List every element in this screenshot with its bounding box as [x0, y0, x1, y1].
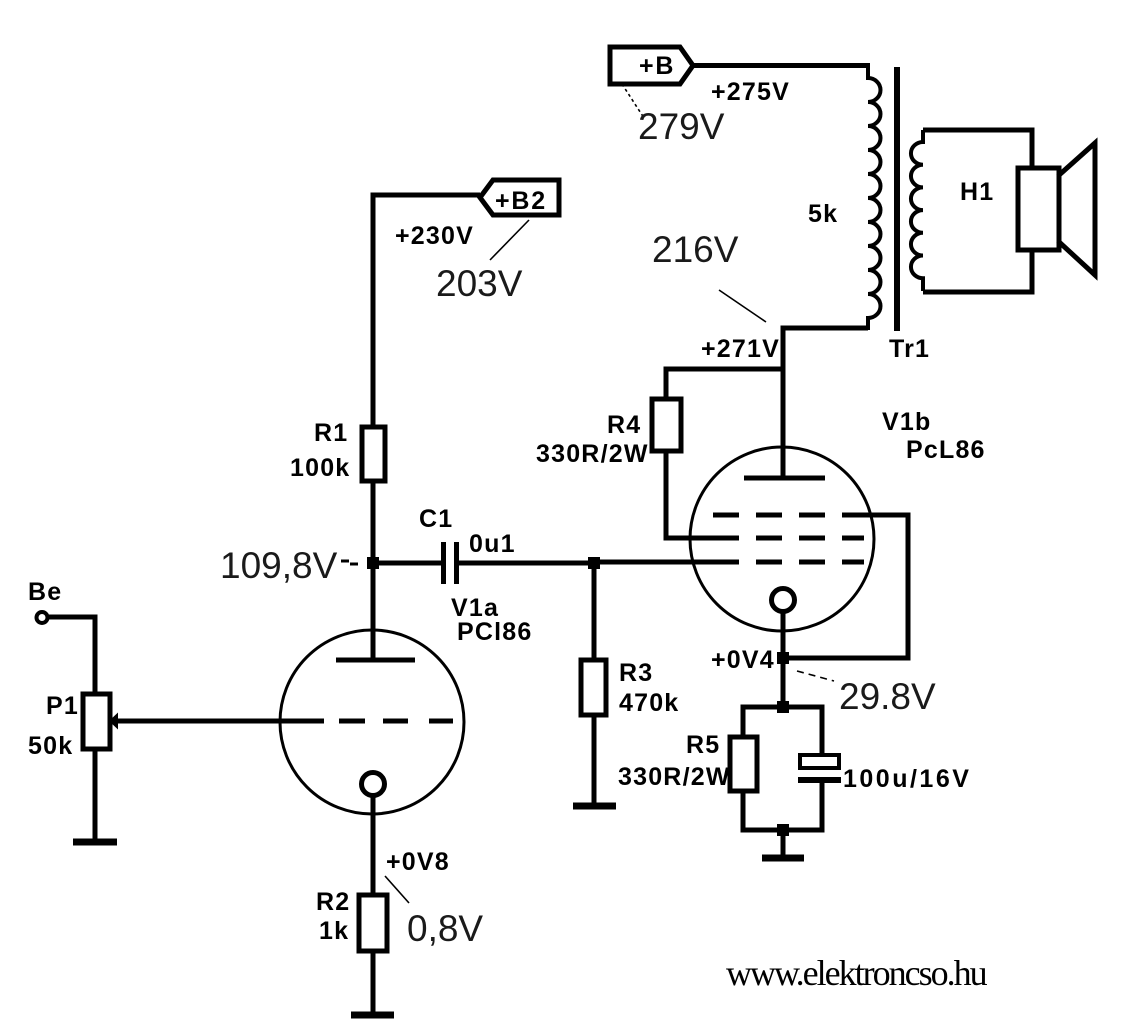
leader line for 203V: [490, 220, 529, 260]
wire P1 to ground: [93, 749, 98, 841]
anode plate V1a: [336, 658, 415, 663]
supply tag +B: [610, 47, 693, 84]
wiper arrow P1: [109, 713, 118, 730]
grid dashes V1a: [339, 719, 453, 724]
anode plate V1b: [744, 476, 825, 481]
svg-text:100k: 100k: [290, 454, 350, 482]
svg-text:R4: R4: [607, 411, 641, 439]
svg-text:+230V: +230V: [395, 222, 474, 250]
svg-text:PCl86: PCl86: [457, 618, 532, 646]
speaker driver: [1018, 168, 1059, 250]
svg-text:330R/2W: 330R/2W: [536, 440, 649, 468]
wire +B to transformer primary top: [693, 63, 868, 68]
tube V1a envelope: [280, 630, 464, 814]
wire anode node to R4: [666, 369, 783, 399]
ground (R3): [573, 803, 616, 810]
svg-text:+0V8: +0V8: [386, 848, 450, 876]
wire g3 to cathode node: [783, 515, 908, 658]
svg-text:+B: +B: [639, 52, 675, 80]
svg-text:R3: R3: [619, 659, 653, 687]
leader line for 216V: [719, 290, 766, 322]
svg-text:PcL86: PcL86: [906, 436, 986, 464]
svg-text:1k: 1k: [319, 917, 349, 945]
resistor R1: [362, 427, 385, 481]
svg-text:www.elektroncso.hu: www.elektroncso.hu: [726, 953, 988, 993]
tilde mark: [341, 561, 358, 564]
wire +B2 to R1: [373, 195, 480, 427]
cathode V1b: [772, 589, 795, 612]
svg-text:C1: C1: [419, 505, 453, 533]
svg-text:203V: 203V: [436, 263, 523, 304]
svg-text:V1b: V1b: [882, 408, 931, 436]
svg-text:Be: Be: [28, 578, 62, 606]
svg-text:0,8V: 0,8V: [407, 908, 483, 949]
wire cathode network bottom: [743, 780, 822, 830]
node network bottom: [777, 824, 789, 836]
cathode V1a: [362, 773, 385, 796]
wire cathode network top: [743, 707, 822, 755]
wire node to R3: [592, 562, 597, 660]
leader line for 0,8V: [385, 876, 409, 903]
svg-text:216V: 216V: [652, 229, 739, 270]
transformer Tr1 primary winding: [868, 63, 880, 330]
leader line for 29.8V: [797, 671, 834, 681]
capacitor C2 100u/16V top plate: [800, 755, 839, 768]
tube V1b envelope: [690, 447, 874, 631]
capacitor C2 bottom plate: [798, 777, 841, 783]
wire R4 to screen grid g2: [666, 451, 739, 538]
svg-text:470k: 470k: [619, 689, 679, 717]
speaker horn: [1058, 143, 1095, 275]
wire node to C1: [373, 561, 441, 566]
wire R3 to ground: [592, 715, 597, 805]
svg-text:R1: R1: [314, 419, 348, 447]
svg-text:5k: 5k: [808, 200, 838, 228]
ground (P1): [73, 839, 117, 846]
input terminal Be: [37, 612, 48, 623]
resistor R3: [581, 660, 606, 715]
svg-text:R5: R5: [686, 731, 720, 759]
transformer Tr1 secondary winding: [911, 130, 923, 291]
node 109,8V: [367, 557, 379, 569]
resistor R5: [730, 737, 757, 791]
wire R1 to anode V1a: [371, 481, 376, 658]
wire cathode V1b down: [781, 611, 786, 707]
node R5/C2 top: [777, 701, 789, 713]
svg-text:R2: R2: [316, 888, 350, 916]
leader line for 279V: [622, 84, 644, 118]
resistor R4: [652, 399, 681, 451]
svg-text:29.8V: 29.8V: [839, 676, 936, 717]
svg-text:+275V: +275V: [711, 78, 790, 106]
svg-text:330R/2W: 330R/2W: [618, 763, 731, 791]
wire cathode V1a to R2: [371, 795, 376, 895]
wire transformer bottom to anode: [783, 328, 868, 477]
node C1/R3/g1: [588, 557, 600, 569]
speaker H1 box: [923, 130, 1032, 292]
svg-text:109,8V: 109,8V: [220, 545, 338, 586]
grid g2 dashes V1b: [756, 536, 864, 541]
svg-text:100u/16V: 100u/16V: [843, 765, 971, 793]
grid g1 dashes V1b: [756, 560, 864, 565]
wire node to g1 V1b: [594, 560, 739, 565]
supply tag +B2: [480, 180, 559, 215]
svg-text:0u1: 0u1: [469, 530, 516, 558]
svg-text:+0V4: +0V4: [711, 646, 775, 674]
wire R2 to ground: [371, 951, 376, 1014]
resistor R2: [359, 895, 387, 951]
ground (V1b cathode): [762, 855, 804, 862]
wire wiper to grid V1a: [116, 719, 324, 724]
wire C1 to grid node: [456, 561, 594, 566]
node +0V4: [777, 652, 789, 664]
wire Be to P1: [48, 617, 95, 694]
svg-text:50k: 50k: [28, 732, 73, 760]
grid g3 dashes V1b: [713, 513, 864, 518]
wire to ground (V1b cathode): [781, 830, 786, 857]
svg-text:P1: P1: [46, 692, 79, 720]
svg-text:Tr1: Tr1: [889, 335, 930, 363]
capacitor C1: [444, 542, 457, 584]
potentiometer P1: [83, 694, 110, 749]
svg-text:+B2: +B2: [495, 187, 547, 215]
transformer core: [894, 67, 900, 331]
svg-text:+271V: +271V: [701, 335, 780, 363]
svg-text:279V: 279V: [638, 106, 725, 147]
ground (R2): [351, 1012, 394, 1019]
svg-text:H1: H1: [960, 178, 994, 206]
